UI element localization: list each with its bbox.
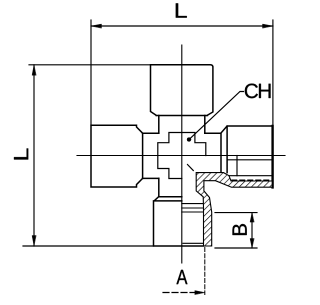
right port thread major line	[229, 175, 272, 177]
label CH	[245, 84, 258, 99]
B dimension line	[251, 213, 253, 248]
left port body	[91, 125, 143, 187]
right port thread lines	[236, 156, 238, 176]
CH leader line	[189, 92, 244, 140]
right port end face	[271, 126, 273, 187]
CH leader dot	[187, 138, 191, 142]
bottom port body exterior	[154, 197, 204, 246]
label L left	[14, 148, 28, 159]
label A	[176, 270, 187, 284]
left dimension arrows	[32, 65, 36, 246]
section cut corner edge	[188, 165, 194, 171]
right port bore line	[227, 159, 272, 161]
A dimension dashed line	[163, 292, 196, 294]
top dimension L line	[91, 25, 273, 27]
B dimension arrows	[250, 213, 254, 248]
right port neck	[205, 132, 221, 134]
centerline horizontal	[77, 155, 285, 157]
bottom port section thread lines	[182, 204, 203, 244]
B dimension extensions	[215, 213, 257, 248]
left dim top extension (also top port top face)	[29, 64, 151, 66]
left dimension L line	[33, 65, 35, 246]
top dim extension left (also left port face)	[90, 20, 92, 125]
section hatch boot	[196, 173, 272, 246]
label L top	[176, 3, 187, 17]
A dimension extension	[204, 248, 206, 295]
right port flange	[221, 126, 273, 173]
top dim extension right	[272, 20, 274, 126]
A dimension arrow	[195, 291, 205, 295]
left dim bottom extension (also bottom port bottom face)	[23, 245, 154, 247]
top port body	[151, 65, 213, 116]
left port neck	[143, 133, 159, 178]
center boss stepped cross	[158, 133, 206, 179]
bottom port neck	[158, 178, 160, 196]
label B	[233, 224, 247, 235]
right port thread root dashes	[232, 179, 270, 181]
top dimension arrows	[91, 24, 273, 28]
centerline vertical	[181, 45, 183, 263]
top port neck	[159, 116, 205, 134]
